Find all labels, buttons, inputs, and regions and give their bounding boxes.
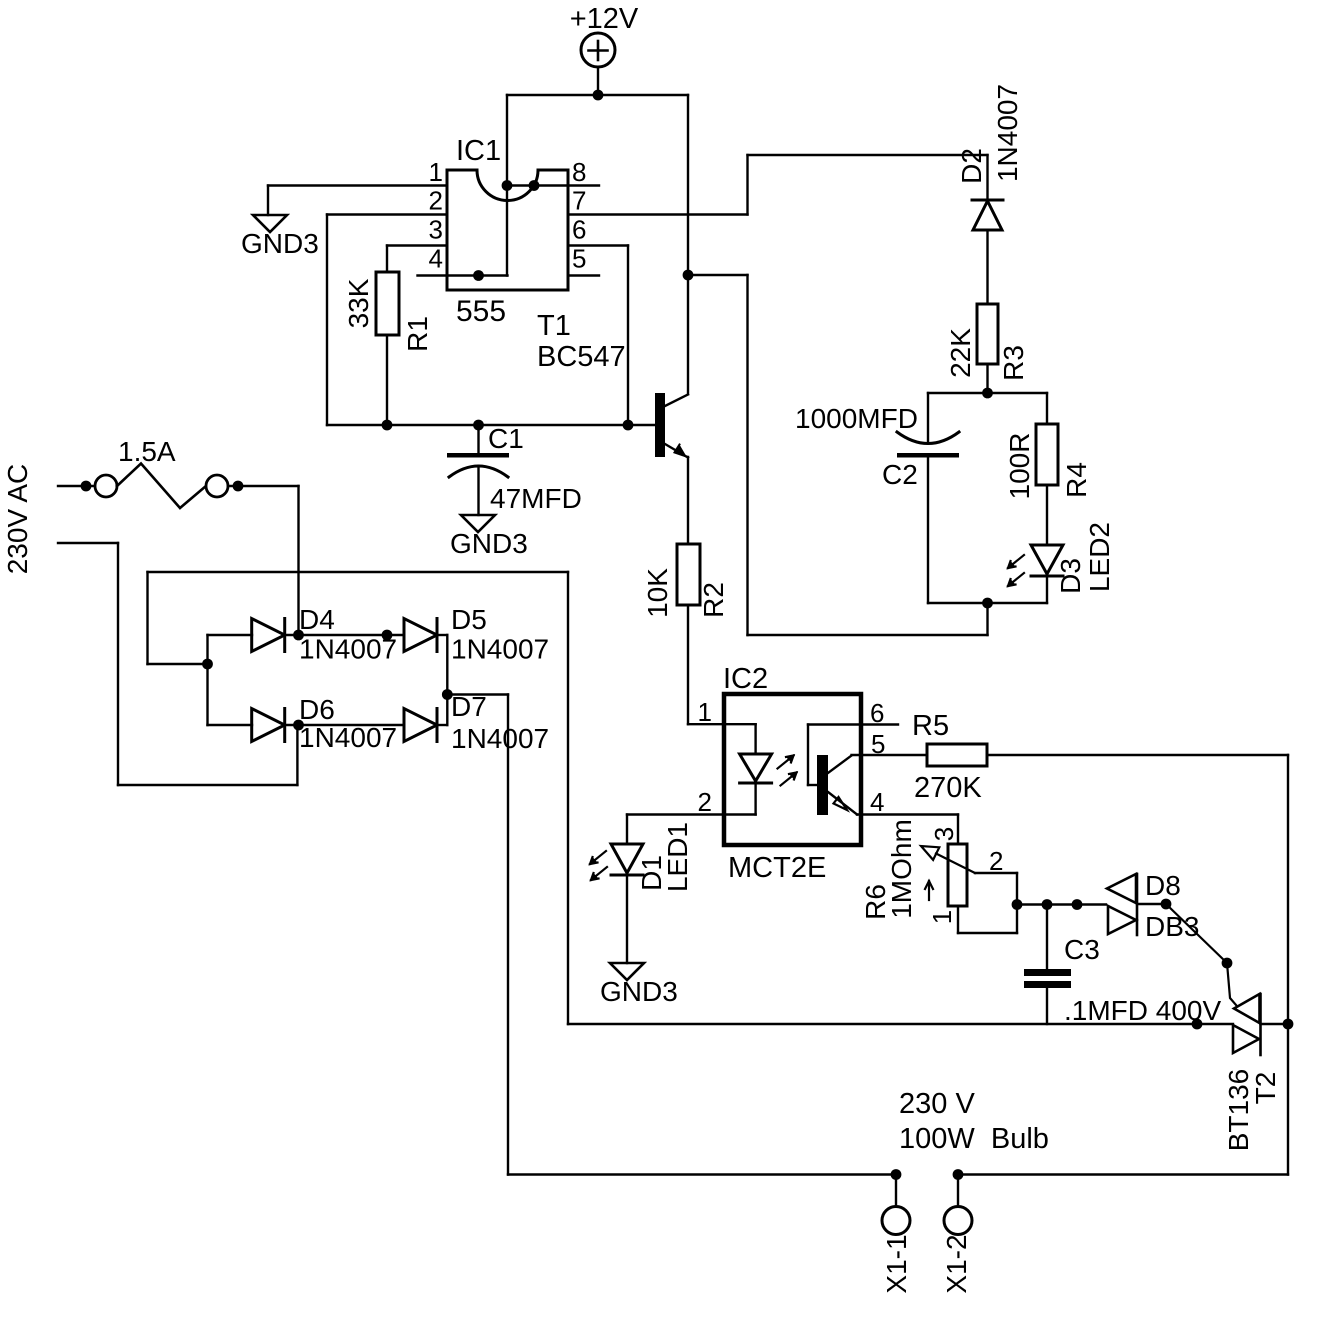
svg-text:X1-2: X1-2 [941,1234,972,1293]
svg-text:6: 6 [572,215,586,245]
svg-text:10K: 10K [642,568,673,618]
svg-text:1: 1 [927,910,957,924]
svg-text:T2: T2 [1250,1072,1281,1105]
svg-text:C2: C2 [882,459,918,490]
svg-text:D5: D5 [451,604,487,635]
svg-text:C1: C1 [488,423,524,454]
svg-text:33K: 33K [343,278,374,328]
svg-text:2: 2 [429,186,443,216]
svg-text:LED2: LED2 [1084,522,1115,592]
svg-text:47MFD: 47MFD [490,483,582,514]
svg-text:GND3: GND3 [600,976,678,1007]
svg-text:100R: 100R [1004,433,1035,500]
svg-text:4: 4 [870,787,884,817]
svg-text:D4: D4 [299,604,335,635]
svg-text:1N4007: 1N4007 [451,634,549,665]
svg-text:270K: 270K [914,772,982,804]
svg-text:2: 2 [698,787,712,817]
svg-text:1000MFD: 1000MFD [795,403,918,434]
svg-text:3: 3 [929,827,959,841]
svg-text:7: 7 [572,186,586,216]
svg-text:R1: R1 [402,316,433,352]
svg-text:BC547: BC547 [537,341,626,373]
svg-text:D2: D2 [956,148,987,184]
svg-text:6: 6 [870,698,884,728]
svg-text:1: 1 [698,697,712,727]
svg-text:R4: R4 [1061,462,1092,498]
svg-text:MCT2E: MCT2E [728,852,826,884]
svg-text:R3: R3 [998,345,1029,381]
svg-text:1N4007: 1N4007 [299,634,397,665]
svg-text:2: 2 [989,846,1003,876]
svg-text:4: 4 [429,244,443,274]
svg-text:LED1: LED1 [662,822,693,892]
svg-text:230 V: 230 V [899,1088,975,1120]
svg-text:T1: T1 [537,310,571,342]
svg-text:X1-1: X1-1 [881,1234,912,1293]
svg-text:3: 3 [429,215,443,245]
svg-text:1N4007: 1N4007 [992,84,1023,182]
svg-text:R5: R5 [912,710,949,742]
svg-text:1.5A: 1.5A [118,436,176,467]
svg-text:1N4007: 1N4007 [451,723,549,754]
svg-text:IC2: IC2 [723,663,768,695]
svg-text:5: 5 [871,729,885,759]
svg-text:1N4007: 1N4007 [299,722,397,753]
svg-text:C3: C3 [1064,934,1100,965]
svg-text:230V AC: 230V AC [2,464,33,575]
svg-text:IC1: IC1 [456,135,501,167]
svg-text:GND3: GND3 [241,228,319,259]
svg-text:D6: D6 [299,694,335,725]
svg-text:555: 555 [456,295,506,328]
svg-text:D8: D8 [1145,870,1181,901]
svg-text:R2: R2 [698,582,729,618]
svg-text:+12V: +12V [570,3,639,35]
svg-text:100W Bulb: 100W Bulb [899,1123,1049,1155]
svg-text:5: 5 [572,244,586,274]
svg-text:1MOhm: 1MOhm [886,819,917,919]
svg-text:D3: D3 [1055,558,1086,594]
svg-text:22K: 22K [945,328,976,378]
svg-text:8: 8 [572,157,586,187]
svg-text:GND3: GND3 [450,528,528,559]
svg-text:DB3: DB3 [1145,911,1199,942]
svg-text:1: 1 [429,157,443,187]
